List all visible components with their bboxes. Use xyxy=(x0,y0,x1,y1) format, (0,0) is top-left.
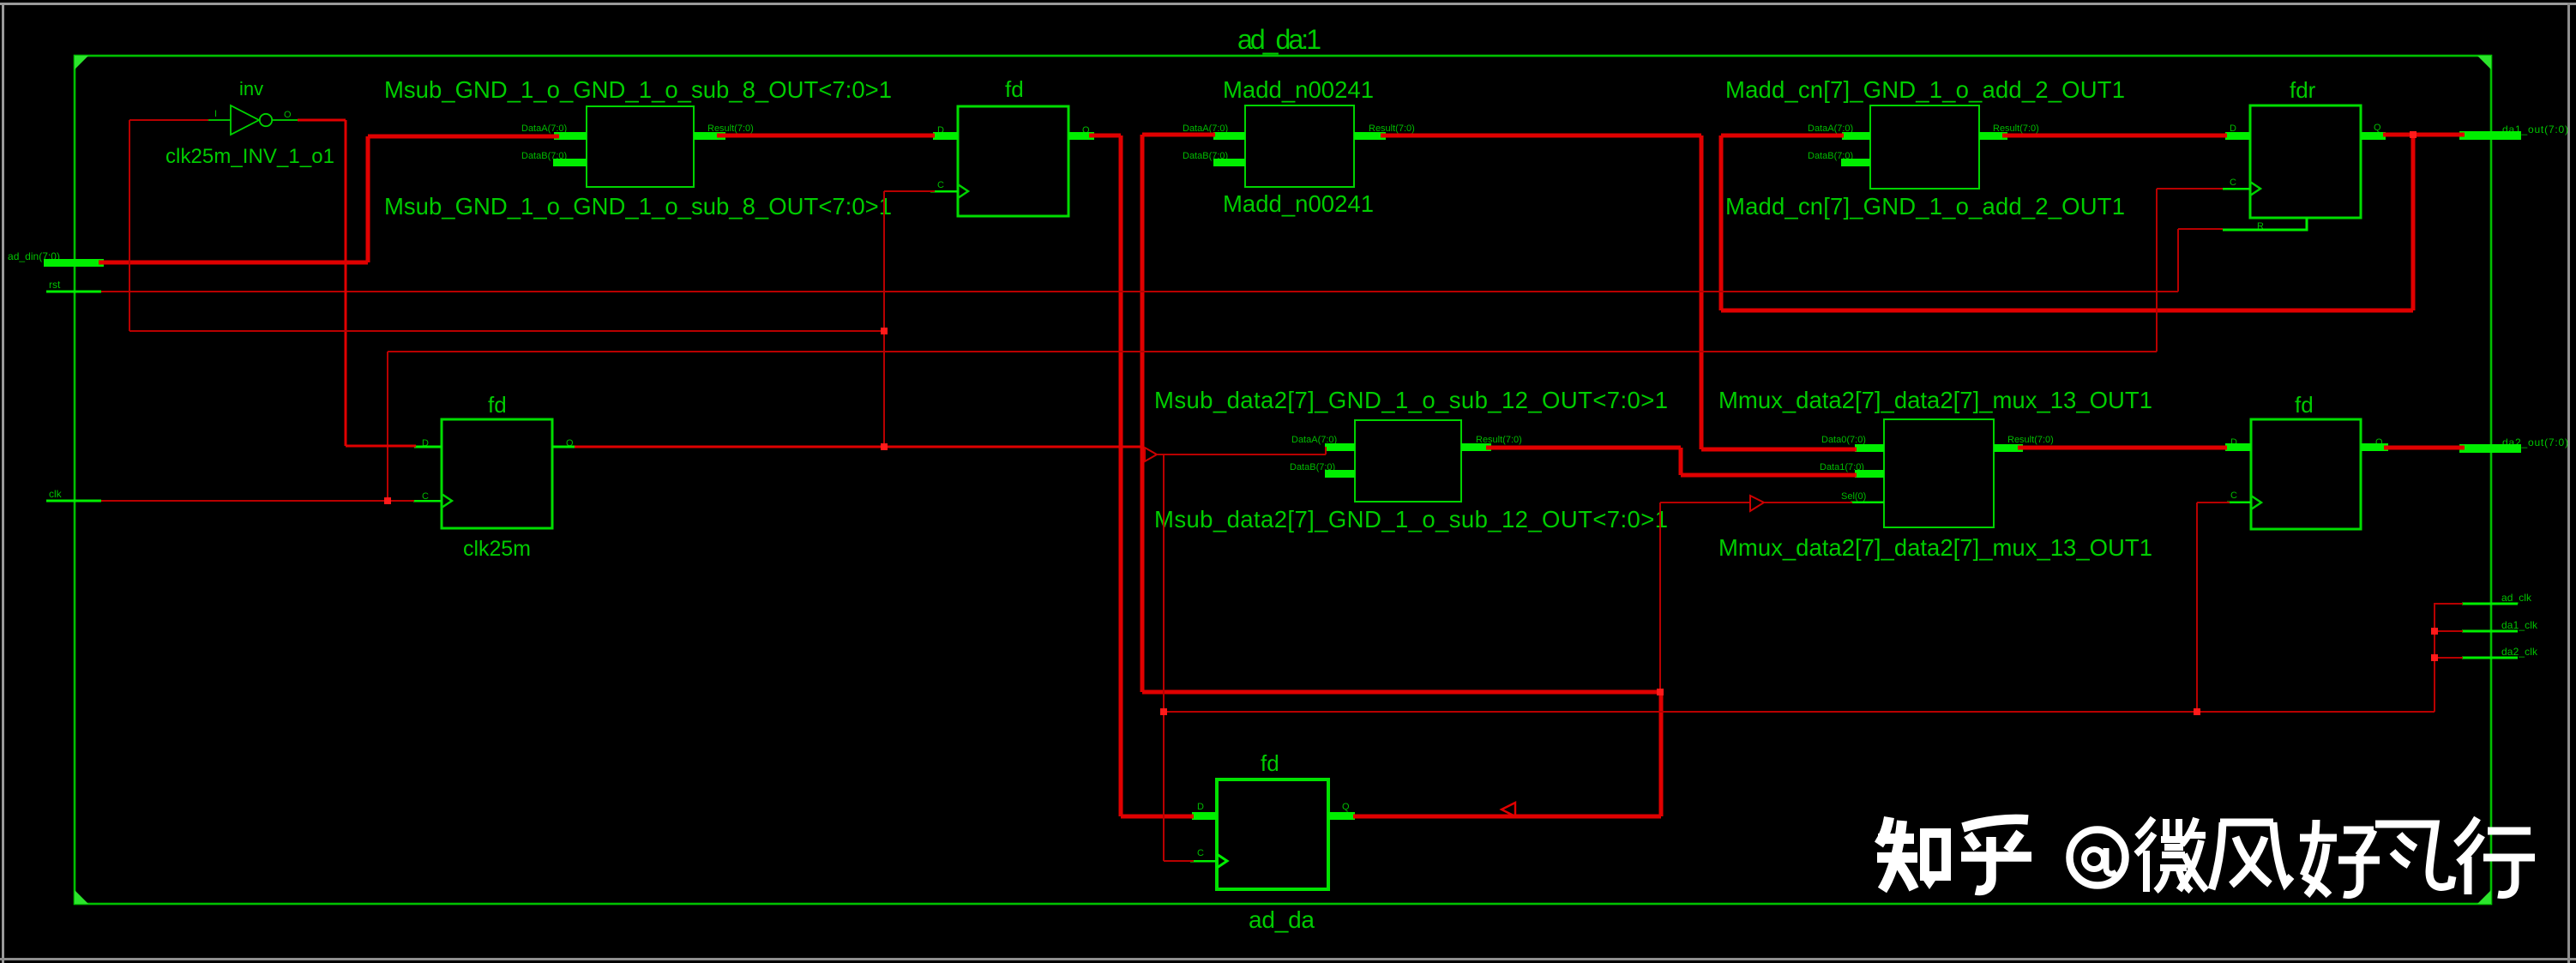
junction clk25m y830 x1357 xyxy=(1160,708,1167,715)
svg-text:O: O xyxy=(284,110,292,120)
pin stub D fdr xyxy=(2225,132,2250,140)
block fd top xyxy=(958,106,1068,216)
input port line rst xyxy=(46,291,101,293)
wire clk long horizontal y410 xyxy=(388,351,2157,352)
inverter U_inv symbol xyxy=(208,105,298,135)
wire bus into Data0 mux_13 xyxy=(1701,448,1857,452)
pin stub Result sub_12 xyxy=(1461,443,1491,451)
wire ad_din bus vertical x429 xyxy=(366,136,370,262)
block Madd_cn add_2 xyxy=(1870,105,1979,189)
wire bus vertical x1307 fd Q to ad_da D xyxy=(1119,135,1123,816)
junction sel on ad_da Q bus xyxy=(1657,689,1664,695)
wire into D fd clk25m xyxy=(346,445,416,448)
watermark 乎 xyxy=(1961,819,2031,890)
wire into C fd da2 xyxy=(2197,502,2230,503)
wire bus vertical x1984 xyxy=(1700,135,1704,449)
pin stub DataB add_2 xyxy=(1841,159,1870,166)
svg-text:C: C xyxy=(2230,178,2236,188)
pin stub Data0 mux_13 xyxy=(1855,444,1884,452)
block Mmux mux_13 xyxy=(1884,419,1994,527)
wire into inverter input xyxy=(129,119,208,121)
wire bus into DataA add_2 xyxy=(1721,134,1844,138)
wire bus vertical x2814 fdr feedback xyxy=(2411,135,2416,310)
pin stub Sel mux_13 xyxy=(1851,502,1884,503)
wire stub da2_clk xyxy=(2435,657,2463,659)
svg-text:clk: clk xyxy=(49,488,63,500)
wire clk25m vertical x2562 xyxy=(2196,503,2198,712)
junction clk x452 xyxy=(384,497,391,504)
watermark 行 xyxy=(2456,818,2535,894)
wire bus horizontal y807 xyxy=(1142,690,1661,695)
sheet corner fold top-left xyxy=(75,56,88,69)
window frame grey right xyxy=(2567,3,2570,963)
svg-text:da1_clk: da1_clk xyxy=(2501,619,2538,631)
pin stub Q fd top xyxy=(1068,132,1094,140)
wire clk vertical x452 xyxy=(387,352,388,501)
junction da1_clk xyxy=(2431,628,2438,635)
svg-text:C: C xyxy=(1197,848,1204,858)
svg-text:clk25m_INV_1_o1: clk25m_INV_1_o1 xyxy=(166,145,334,168)
clock chevron fd ad_da xyxy=(1217,854,1227,868)
pin stub DataB Madd_n00241 xyxy=(1213,159,1245,166)
watermark 微 xyxy=(2136,818,2206,892)
wire clk vertical x2515 xyxy=(2156,189,2158,352)
svg-text:C: C xyxy=(2230,491,2237,501)
net arrow sel xyxy=(1750,496,1764,511)
sheet corner fold bottom-right xyxy=(2477,890,2491,904)
wire bus fdr Q to da1_out xyxy=(2383,133,2465,137)
input port line clk xyxy=(46,500,101,503)
wire inv output vertical x403 xyxy=(345,120,347,446)
pin stub D fd clk25m xyxy=(414,446,442,448)
block fdr xyxy=(2250,105,2361,218)
output port line da2_clk xyxy=(2462,657,2518,659)
sheet corner fold bottom-left xyxy=(75,890,88,904)
clock chevron fd clk25m xyxy=(442,494,452,508)
pin stub R fdr xyxy=(2223,218,2307,230)
svg-text:ad_da: ad_da xyxy=(1249,906,1315,933)
svg-text:inv: inv xyxy=(239,78,263,99)
watermark @ xyxy=(2070,830,2126,886)
svg-text:rst: rst xyxy=(49,279,61,291)
watermark 飞 xyxy=(2375,824,2453,887)
svg-text:Msub_data2[7]_GND_1_o_sub_12_O: Msub_data2[7]_GND_1_o_sub_12_OUT<7:0>1 xyxy=(1154,506,1668,533)
watermark 风 xyxy=(2212,822,2291,889)
wire into C fd ad_da xyxy=(1164,860,1194,862)
pin stub Q fd da2 xyxy=(2361,443,2388,451)
svg-text:Msub_GND_1_o_GND_1_o_sub_8_OUT: Msub_GND_1_o_GND_1_o_sub_8_OUT<7:0>1 xyxy=(384,193,892,220)
pin stub Result mux_13 xyxy=(1994,444,2023,452)
svg-text:Madd_cn[7]_GND_1_o_add_2_OUT1: Madd_cn[7]_GND_1_o_add_2_OUT1 xyxy=(1725,193,2125,220)
svg-text:da2_clk: da2_clk xyxy=(2501,646,2538,658)
wire ad_din bus into DataA sub_8 xyxy=(368,135,559,139)
wire stub da1_clk xyxy=(2435,630,2463,632)
svg-text:Result(7:0): Result(7:0) xyxy=(2007,435,2054,445)
pin stub Result sub_8 xyxy=(694,132,725,140)
pin stub DataB sub_8 xyxy=(553,159,587,166)
pin stub Q fd ad_da xyxy=(1328,812,1355,820)
block fd da2 xyxy=(2251,419,2361,529)
wire ad_din bus horizontal from port xyxy=(99,261,368,265)
wire clk25m branch y386 to inverter xyxy=(129,330,884,332)
wire bus vertical x1937 up xyxy=(1659,691,1664,816)
svg-text:fd: fd xyxy=(1261,750,1279,776)
wire bus Madd Result y158 xyxy=(1381,134,1701,138)
clock chevron fd top xyxy=(958,184,968,198)
wire bus vertical x2007 feedback xyxy=(1719,135,1724,310)
pin stub D fd ad_da xyxy=(1192,812,1217,820)
svg-text:fdr: fdr xyxy=(2290,77,2316,103)
wire bus mux_13 Result to fd da2 D xyxy=(2018,446,2227,450)
wire stub ad_clk xyxy=(2435,603,2463,605)
junction clk25m y521 xyxy=(881,443,888,450)
wire bus vertical x1332 up to Madd xyxy=(1141,135,1145,692)
wire bus add_2 Result to fdr D xyxy=(2002,134,2227,138)
svg-text:Madd_cn[7]_GND_1_o_add_2_OUT1: Madd_cn[7]_GND_1_o_add_2_OUT1 xyxy=(1725,76,2125,103)
wire bus fd da2 Q to da2_out xyxy=(2384,446,2465,450)
window frame grey left xyxy=(2,3,4,963)
svg-text:Q: Q xyxy=(2374,123,2381,133)
pin stub DataA add_2 xyxy=(1842,132,1870,140)
wire sel into Mmux Sel xyxy=(1764,502,1852,503)
junction clk25m y386 xyxy=(881,328,888,334)
svg-text:C: C xyxy=(937,180,944,190)
wire sel vertical x1936 xyxy=(1659,503,1661,691)
block fd clk25m xyxy=(442,419,552,528)
clock chevron fd da2 xyxy=(2251,496,2261,509)
wire jog into DataA sub_12 xyxy=(1325,447,1327,454)
window frame grey top xyxy=(0,3,2576,5)
junction da2_clk xyxy=(2431,654,2438,661)
svg-text:Sel(0): Sel(0) xyxy=(1841,491,1866,502)
svg-text:D: D xyxy=(1197,802,1204,812)
window frame grey bottom xyxy=(0,958,2576,960)
svg-text:Q: Q xyxy=(1342,802,1350,812)
svg-text:fd: fd xyxy=(2295,392,2314,418)
wire bus sub_12 Result y522 xyxy=(1486,446,1681,450)
wire rst long horizontal y340 xyxy=(101,291,2178,292)
svg-text:Data0(7:0): Data0(7:0) xyxy=(1821,435,1866,445)
svg-text:Mmux_data2[7]_data2[7]_mux_13_: Mmux_data2[7]_data2[7]_mux_13_OUT1 xyxy=(1718,387,2152,413)
junction clk25m y830 x2562 xyxy=(2194,708,2200,715)
wire rst vertical x2540 xyxy=(2177,229,2179,292)
pin stub C fd top xyxy=(930,190,958,192)
junction fdr Q feedback xyxy=(2410,131,2417,138)
block fd ad_da xyxy=(1217,779,1328,889)
wire clk25m vertical x2839 to clk outputs xyxy=(2434,603,2435,712)
block Msub_data2 sub_12 xyxy=(1355,420,1461,502)
output port line ad_clk xyxy=(2462,603,2518,605)
sheet corner fold top-right xyxy=(2477,56,2491,69)
output port bar da2_out(7:0) xyxy=(2459,444,2521,453)
svg-text:Msub_data2[7]_GND_1_o_sub_12_O: Msub_data2[7]_GND_1_o_sub_12_OUT<7:0>1 xyxy=(1154,387,1668,413)
net arrow on ad_da Q bus xyxy=(1502,803,1515,816)
pin stub C fd ad_da xyxy=(1190,860,1217,862)
svg-text:clk25m: clk25m xyxy=(463,537,531,561)
svg-text:ad_clk: ad_clk xyxy=(2501,592,2532,604)
pin stub Q fd clk25m xyxy=(552,446,580,448)
svg-text:Msub_GND_1_o_GND_1_o_sub_8_OUT: Msub_GND_1_o_GND_1_o_sub_8_OUT<7:0>1 xyxy=(384,76,892,103)
watermark 知 xyxy=(1877,817,1917,890)
pin stub C fdr xyxy=(2223,188,2250,190)
wire bus jog x1960 xyxy=(1679,448,1683,475)
wire bus fd ad_da Q out xyxy=(1353,815,1661,819)
wire bus sub_8 Result to fd D xyxy=(717,134,935,138)
pin stub DataA sub_12 xyxy=(1325,443,1355,451)
pin stub D fd da2 xyxy=(2225,443,2251,451)
pin stub Data1 mux_13 xyxy=(1855,470,1884,478)
input port bar ad_din(7:0) xyxy=(44,259,104,267)
wire bus into Data1 mux_13 xyxy=(1681,473,1857,478)
pin stub Result Madd_n00241 xyxy=(1354,132,1386,140)
output port line da1_clk xyxy=(2462,630,2518,633)
svg-text:ad_da:1: ad_da:1 xyxy=(1237,24,1321,55)
svg-text:I: I xyxy=(214,109,217,119)
output port bar da1_out(7:0) xyxy=(2459,131,2521,140)
wire rst into fdr R xyxy=(2178,228,2223,230)
wire clk25m vertical x1357 xyxy=(1163,454,1165,861)
wire bus horizontal y362 feedback xyxy=(1721,309,2413,313)
svg-text:Madd_n00241: Madd_n00241 xyxy=(1223,190,1374,217)
pin stub Q fdr xyxy=(2361,132,2386,140)
wire clk25m Q y521 xyxy=(575,446,1144,448)
clock chevron fdr xyxy=(2250,182,2260,196)
watermark 好 xyxy=(2300,820,2380,895)
wire bus into DataA Madd_n00241 xyxy=(1142,133,1215,137)
pin stub DataB sub_12 xyxy=(1325,470,1355,478)
pin stub C fd da2 xyxy=(2227,502,2251,503)
pin stub DataA Madd_n00241 xyxy=(1213,132,1245,140)
wire clk25m into fd C top xyxy=(884,190,935,192)
pin stub C fd clk25m xyxy=(413,500,442,502)
net arrow clk25m to DataA sub_12 xyxy=(1145,448,1157,461)
svg-text:fd: fd xyxy=(488,392,507,418)
wire bus fd Q out xyxy=(1089,134,1121,138)
wire clk into fdr C xyxy=(2157,188,2223,190)
wire clk25m vertical x151 xyxy=(129,120,130,331)
svg-text:Mmux_data2[7]_data2[7]_mux_13_: Mmux_data2[7]_data2[7]_mux_13_OUT1 xyxy=(1718,534,2152,561)
pin stub Result add_2 xyxy=(1979,132,2007,140)
block Msub_GND_1_o_GND_1_o_sub_8 xyxy=(587,106,694,187)
svg-text:fd: fd xyxy=(1005,76,1024,102)
pin stub DataA sub_8 xyxy=(554,132,587,140)
wire sel y586 xyxy=(1660,502,1750,503)
pin stub D fd top xyxy=(933,132,958,140)
wire inv output y140 xyxy=(298,119,346,122)
wire bus into D fd ad_da xyxy=(1121,815,1194,819)
block Madd_n00241 xyxy=(1245,105,1354,187)
wire clk from port to fd clk25m C xyxy=(101,500,414,502)
wire clk25m long horizontal y830 xyxy=(1164,711,2435,713)
wire clk25m to DataA sub_12 y530 xyxy=(1157,454,1326,455)
wire clk25m vertical x1031 xyxy=(883,191,885,447)
svg-text:Madd_n00241: Madd_n00241 xyxy=(1223,76,1374,103)
